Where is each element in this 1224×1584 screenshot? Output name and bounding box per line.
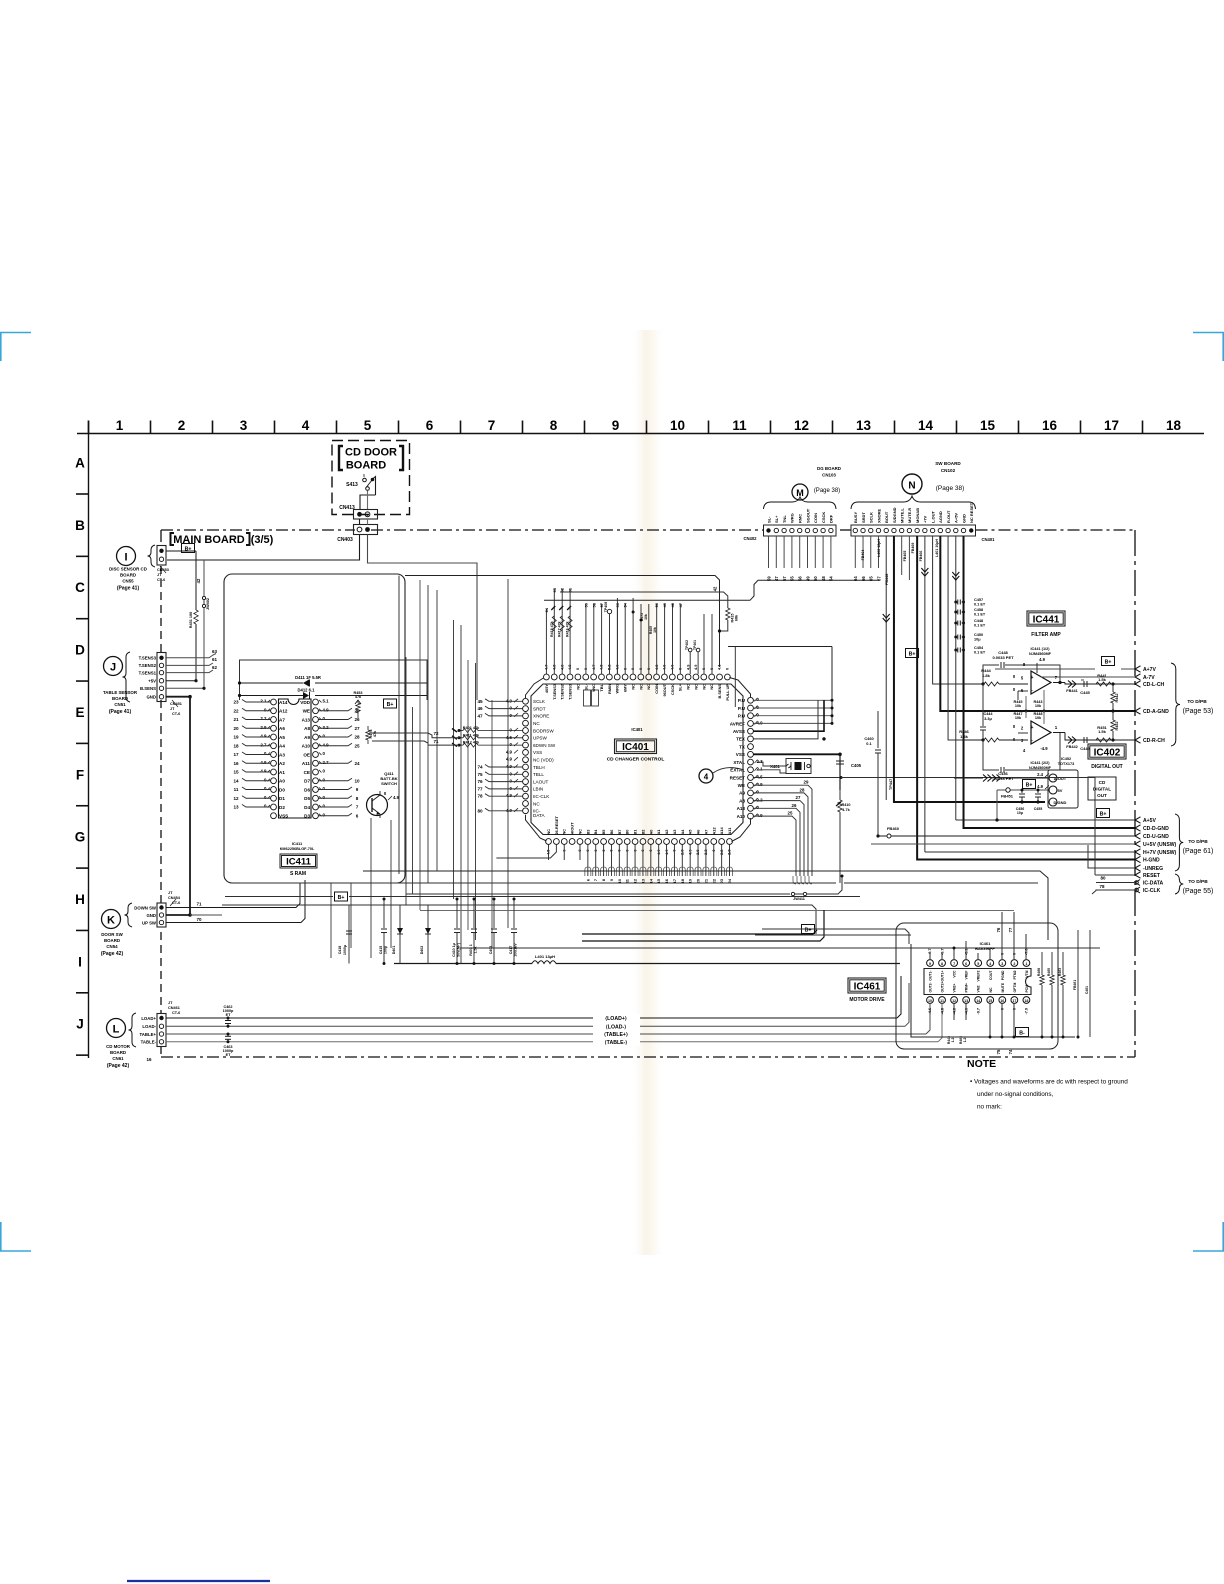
connector M pin strip	[764, 508, 837, 536]
svg-text:TOTX173: TOTX173	[1058, 762, 1074, 766]
svg-text:T.SENS1: T.SENS1	[568, 683, 573, 700]
svg-text:4.9: 4.9	[1037, 784, 1043, 789]
wire J +5V	[166, 680, 196, 682]
svg-text:RESET: RESET	[1143, 873, 1161, 879]
IC411 bottom drop wires	[331, 818, 391, 958]
svg-text:B.SENS: B.SENS	[140, 686, 156, 691]
connector N brace	[851, 496, 976, 509]
svg-text:B+: B+	[338, 895, 345, 901]
svg-text:12: 12	[233, 796, 239, 801]
svg-text:42: 42	[713, 586, 718, 591]
corner registration mark top-left	[0, 332, 31, 334]
svg-text:NC: NC	[577, 829, 582, 835]
svg-text:4.9: 4.9	[506, 793, 513, 798]
svg-text:0: 0	[1013, 1008, 1017, 1010]
svg-text:45: 45	[477, 699, 483, 704]
svg-text:MONAB: MONAB	[915, 508, 920, 523]
wire I pin1	[166, 550, 196, 552]
B+ A+5V	[1097, 809, 1110, 818]
wire UNREG	[1088, 845, 1135, 868]
svg-text:IC461: IC461	[854, 982, 881, 993]
svg-text:IC-DATA: IC-DATA	[1143, 881, 1164, 887]
svg-text:2.7: 2.7	[323, 760, 330, 765]
svg-text:6MY: 6MY	[623, 684, 628, 692]
svg-text:TP408: TP408	[604, 602, 608, 613]
svg-text:11: 11	[732, 418, 747, 433]
svg-text:LOAD-: LOAD-	[142, 1024, 156, 1029]
svg-text:FB466: FB466	[919, 551, 923, 562]
ferrite labels FB	[861, 539, 939, 562]
wire K up sw	[166, 880, 305, 923]
IC461 bottom bus	[911, 944, 1075, 1039]
svg-text:JT: JT	[168, 891, 173, 895]
svg-text:SW BOARD: SW BOARD	[935, 461, 961, 466]
svg-text:18: 18	[233, 743, 239, 748]
svg-text:B0: B0	[625, 830, 630, 835]
svg-text:B+: B+	[1026, 782, 1033, 788]
wire motor TABLE+	[166, 1004, 930, 1038]
svg-text:P.U: P.U	[738, 698, 746, 703]
svg-text:VREF: VREF	[965, 971, 969, 980]
svg-text:IC441: IC441	[1033, 615, 1060, 626]
svg-text:29: 29	[804, 780, 809, 785]
svg-text:CD-U-GND: CD-U-GND	[1143, 834, 1169, 840]
wires J sense to IC401	[166, 649, 218, 673]
transistor Q411	[367, 771, 400, 818]
svg-text:A14: A14	[279, 700, 288, 705]
svg-text:FB448: FB448	[885, 574, 889, 585]
svg-text:TP401: TP401	[693, 640, 697, 650]
svg-text:LOAD+: LOAD+	[141, 1016, 156, 1021]
svg-text:SWITCH: SWITCH	[381, 781, 397, 786]
svg-text:R468: R468	[1037, 968, 1041, 976]
svg-text:DRF: DRF	[829, 514, 834, 523]
svg-text:8: 8	[941, 962, 943, 966]
svg-text:MUTE.R: MUTE.R	[907, 508, 912, 523]
svg-text:A9: A9	[304, 735, 310, 740]
bus loop top	[405, 576, 720, 668]
svg-text:CT-6: CT-6	[172, 901, 180, 905]
svg-text:L: L	[113, 1024, 120, 1036]
svg-text:JT: JT	[168, 1001, 173, 1005]
svg-text:BODRSW: BODRSW	[533, 728, 554, 733]
svg-text:AGND: AGND	[938, 511, 943, 523]
svg-text:NC: NC	[546, 829, 551, 835]
svg-text:D.GND: D.GND	[1054, 800, 1067, 805]
svg-text:-UNREG: -UNREG	[1143, 866, 1163, 872]
svg-text:61: 61	[212, 657, 218, 662]
svg-text:11: 11	[940, 999, 944, 1003]
svg-text:-: -	[1031, 738, 1033, 744]
svg-text:96OUT: 96OUT	[662, 683, 667, 696]
svg-text:C405: C405	[851, 763, 862, 768]
svg-text:1.5k: 1.5k	[474, 947, 478, 954]
IC461 outer box	[896, 923, 1058, 1049]
svg-text:TBLH: TBLH	[533, 765, 545, 770]
svg-text:TO D/PB: TO D/PB	[1187, 699, 1207, 705]
svg-text:A8: A8	[739, 798, 745, 803]
svg-text:MUTE.L: MUTE.L	[899, 508, 904, 523]
svg-text:CN451: CN451	[170, 702, 182, 706]
wire CN403 to I connector	[167, 535, 360, 561]
digital out connector circles	[1037, 770, 1078, 808]
svg-text:DG BOARD: DG BOARD	[817, 466, 841, 471]
output A-7V	[1135, 674, 1155, 681]
wire U+5V	[871, 843, 1135, 845]
svg-text:A2: A2	[664, 829, 669, 835]
B+ IC402	[1023, 780, 1036, 789]
svg-text:1.2: 1.2	[963, 1038, 967, 1043]
svg-text:I: I	[78, 954, 82, 969]
IC461 right network	[1037, 930, 1090, 1039]
svg-text:C461: C461	[1085, 986, 1089, 994]
svg-text:CSCK: CSCK	[821, 512, 826, 523]
svg-text:UPSW: UPSW	[533, 736, 547, 741]
svg-text:GND: GND	[146, 913, 156, 918]
svg-text:(3/5): (3/5)	[251, 534, 274, 546]
svg-text:AVREF: AVREF	[730, 721, 745, 726]
svg-text:C450: C450	[974, 633, 983, 637]
connector K cable label	[168, 891, 181, 906]
capacitors C456 C455	[1016, 789, 1043, 816]
svg-text:74: 74	[1008, 1049, 1013, 1054]
svg-text:A12: A12	[279, 709, 288, 714]
svg-text:+: +	[1031, 675, 1034, 681]
svg-text:T.SENS3: T.SENS3	[139, 656, 157, 661]
switch S413	[346, 474, 375, 509]
svg-text:A3: A3	[279, 752, 285, 757]
svg-text:DIGITAL: DIGITAL	[1093, 787, 1111, 792]
svg-text:DOWN SW: DOWN SW	[134, 905, 157, 910]
svg-text:A1: A1	[656, 829, 661, 835]
svg-text:10k: 10k	[1015, 704, 1022, 708]
svg-text:BA6396FP: BA6396FP	[975, 946, 995, 951]
svg-text:7: 7	[356, 805, 359, 810]
svg-text:10k: 10k	[1035, 716, 1042, 720]
output IC-CLK	[1135, 887, 1161, 894]
wire RESET long	[754, 776, 1001, 779]
svg-text:SL-: SL-	[766, 516, 771, 523]
resistor R444	[963, 668, 1010, 686]
svg-text:I: I	[124, 552, 127, 564]
boxed mode labels	[584, 690, 591, 706]
svg-text:BOARD: BOARD	[112, 696, 128, 701]
connector N wires down	[853, 536, 1135, 860]
svg-text:9: 9	[929, 962, 931, 966]
connector J cable label	[170, 700, 182, 716]
svg-text:4.9: 4.9	[260, 760, 267, 765]
svg-text:16: 16	[1042, 418, 1058, 433]
svg-text:(Page 41): (Page 41)	[117, 586, 140, 592]
svg-text:no mark:: no mark:	[977, 1104, 1002, 1111]
svg-text:NC: NC	[686, 684, 691, 690]
output CD-R-CH	[1135, 737, 1165, 744]
svg-text:⟨TABLE+⟩: ⟨TABLE+⟩	[604, 1032, 628, 1038]
svg-text:9: 9	[356, 787, 359, 792]
resistor R441	[1096, 673, 1115, 686]
svg-text:IC411: IC411	[292, 841, 303, 846]
svg-text:4.9: 4.9	[506, 764, 513, 769]
svg-text:10k: 10k	[1035, 704, 1042, 708]
svg-text:A1: A1	[279, 770, 285, 775]
svg-text:C415: C415	[379, 946, 383, 955]
svg-text:2: 2	[1013, 962, 1015, 966]
svg-text:14: 14	[976, 999, 980, 1003]
svg-text:5V: 5V	[1058, 788, 1063, 793]
svg-text:FB460: FB460	[887, 826, 900, 831]
svg-text:72: 72	[433, 731, 439, 736]
ferrite FB460	[878, 826, 1135, 838]
wire motor LOAD+	[166, 976, 901, 1022]
svg-text:T.SENS3: T.SENS3	[552, 683, 557, 700]
svg-text:NC: NC	[638, 684, 643, 690]
svg-text:N: N	[908, 481, 915, 492]
svg-text:D1: D1	[279, 796, 285, 801]
svg-text:-4.9: -4.9	[1040, 746, 1048, 751]
svg-text:B: B	[75, 518, 85, 533]
bus bottom black L1	[582, 930, 817, 934]
svg-text:CD-D-GND: CD-D-GND	[1143, 826, 1169, 832]
resistors R401 R411 R412	[452, 726, 523, 747]
svg-text:NOTE: NOTE	[967, 1058, 996, 1070]
svg-text:IIC-CLK: IIC-CLK	[533, 794, 550, 799]
svg-text:70: 70	[196, 917, 202, 922]
svg-text:1.5k: 1.5k	[1098, 677, 1107, 682]
svg-text:7: 7	[953, 962, 955, 966]
svg-text:4: 4	[302, 418, 310, 433]
svg-text:DOOR SW: DOOR SW	[101, 932, 123, 937]
svg-text:18: 18	[1166, 418, 1182, 433]
svg-text:A+5V: A+5V	[954, 513, 959, 523]
svg-text:77: 77	[477, 786, 483, 791]
bus bottom black L2	[582, 910, 824, 941]
svg-text:74: 74	[477, 765, 483, 770]
IC401 bottom pin wires	[496, 845, 732, 884]
svg-text:2.9: 2.9	[260, 725, 267, 730]
svg-text:SRDT: SRDT	[533, 706, 546, 711]
connector J circle	[104, 657, 123, 676]
svg-text:49: 49	[805, 576, 810, 581]
svg-text:100μ: 100μ	[384, 946, 388, 954]
svg-text:15: 15	[980, 418, 996, 433]
svg-text:57: 57	[782, 576, 787, 581]
svg-text:13: 13	[964, 999, 968, 1003]
IC461 bottom wires	[947, 1004, 1014, 1055]
svg-text:NC (VDD): NC (VDD)	[533, 758, 554, 763]
bus bottom 6	[460, 947, 1100, 949]
svg-text:0: 0	[709, 668, 714, 670]
svg-text:LBIN: LBIN	[533, 787, 543, 792]
B+ near N	[906, 649, 919, 658]
capacitor C460	[864, 711, 881, 838]
svg-text:10μ: 10μ	[1017, 811, 1023, 815]
svg-text:50: 50	[813, 576, 818, 581]
svg-text:AVSS: AVSS	[733, 729, 745, 734]
svg-text:R463: R463	[1058, 968, 1062, 976]
svg-text:B+: B+	[805, 927, 812, 933]
svg-text:4.6: 4.6	[506, 735, 513, 740]
svg-text:A0: A0	[279, 779, 285, 784]
svg-text:R410: R410	[841, 803, 850, 807]
svg-text:B7: B7	[617, 830, 622, 835]
capacitor C405	[836, 761, 862, 790]
svg-text:FB464: FB464	[861, 550, 865, 561]
svg-text:5: 5	[364, 418, 372, 433]
svg-text:ET: ET	[226, 1053, 232, 1057]
svg-text:3: 3	[1001, 962, 1003, 966]
svg-text:47: 47	[477, 713, 483, 718]
svg-text:VM2+: VM2+	[953, 984, 957, 993]
svg-text:71: 71	[196, 902, 202, 907]
svg-text:VM2: VM2	[977, 985, 981, 992]
svg-text:+7V: +7V	[923, 515, 928, 523]
svg-text:TP402: TP402	[685, 640, 689, 650]
svg-text:SL+: SL+	[774, 515, 779, 523]
svg-text:4.9: 4.9	[1039, 657, 1045, 662]
svg-text:IC401: IC401	[631, 727, 643, 732]
svg-text:4.9: 4.9	[323, 742, 330, 747]
IC401 left pins	[477, 698, 555, 818]
svg-text:B3: B3	[585, 829, 590, 835]
svg-text:A14: A14	[719, 827, 724, 835]
svg-text:(Page 53): (Page 53)	[1183, 708, 1214, 715]
svg-text:77: 77	[1008, 927, 1013, 932]
svg-text:B4: B4	[593, 829, 598, 835]
connector I cable label	[157, 566, 169, 582]
svg-text:19: 19	[233, 735, 239, 740]
resistor R451 100	[189, 551, 198, 681]
svg-text:TO D/PB: TO D/PB	[1188, 879, 1208, 885]
connector M circle	[792, 484, 808, 500]
resistor R453 47k	[353, 691, 362, 718]
svg-text:28: 28	[800, 787, 805, 792]
op-amp U441a	[1010, 657, 1058, 700]
IC461 label box	[848, 978, 886, 993]
output CD-U-GND	[1135, 833, 1169, 840]
resistor R446	[959, 729, 1010, 742]
bus bottom 5	[222, 905, 816, 934]
svg-text:46: 46	[477, 706, 483, 711]
capacitor C445	[1079, 680, 1091, 695]
capacitor C462	[223, 1005, 234, 1028]
svg-text:TP447: TP447	[889, 779, 893, 790]
svg-text:B2: B2	[640, 829, 645, 835]
brace to D/PB page 61	[1175, 814, 1183, 871]
svg-text:BOARD: BOARD	[120, 573, 136, 578]
svg-text:NJM4560MF: NJM4560MF	[1029, 652, 1052, 656]
svg-text:TX: TX	[739, 744, 746, 749]
svg-text:-: -	[1031, 688, 1033, 694]
svg-text:75: 75	[996, 1049, 1001, 1054]
wire K down sw	[166, 883, 300, 908]
svg-text:2: 2	[178, 418, 186, 433]
IC411 label box	[280, 854, 317, 868]
svg-text:10: 10	[928, 999, 932, 1003]
inductor L401	[394, 954, 900, 964]
svg-text:(Page 38): (Page 38)	[814, 488, 840, 494]
svg-text:FB441: FB441	[1066, 689, 1077, 693]
svg-text:IC452: IC452	[1061, 757, 1071, 761]
svg-text:D: D	[75, 643, 85, 658]
svg-text:GND: GND	[146, 695, 156, 700]
IC411 outer routing box	[224, 574, 405, 883]
svg-text:(Page 55): (Page 55)	[1183, 888, 1214, 895]
connector J caption	[103, 690, 138, 715]
svg-text:76: 76	[996, 927, 1001, 932]
svg-text:TBLL: TBLL	[533, 772, 544, 777]
svg-text:2.2: 2.2	[260, 716, 267, 721]
svg-text:SRDT: SRDT	[861, 512, 866, 523]
svg-text:R452: R452	[1115, 721, 1119, 730]
output CD-D-GND	[1135, 825, 1169, 832]
svg-text:10k: 10k	[653, 627, 657, 633]
svg-text:A-7V: A-7V	[1143, 675, 1155, 681]
svg-text:4.7k: 4.7k	[842, 808, 850, 812]
svg-text:4.9: 4.9	[260, 734, 267, 739]
svg-text:UP SW: UP SW	[142, 920, 157, 925]
B+ IC411	[384, 699, 397, 708]
bus verticals left of IC401	[399, 576, 508, 964]
svg-text:BOARD: BOARD	[104, 938, 120, 943]
output U+5V (UNSW)	[1135, 841, 1177, 848]
connector CN403	[337, 519, 377, 543]
svg-text:10μ: 10μ	[974, 638, 981, 642]
svg-text:A6: A6	[696, 829, 701, 835]
svg-text:2.1: 2.1	[260, 699, 267, 704]
svg-text:CN461: CN461	[168, 1006, 180, 1010]
svg-text:75: 75	[477, 772, 483, 777]
svg-text:1.8k: 1.8k	[982, 673, 991, 678]
svg-text:10: 10	[670, 418, 685, 433]
wires AVSS TEX	[754, 700, 826, 741]
B+ mid	[802, 925, 815, 934]
svg-text:VTM: VTM	[1025, 970, 1029, 977]
bus pullup vertical	[728, 647, 834, 725]
svg-text:PGND: PGND	[1001, 970, 1005, 980]
svg-text:OUT2+: OUT2+	[941, 981, 945, 992]
svg-text:15: 15	[233, 770, 239, 775]
passive row C415 C410 R401 C403 C417	[379, 898, 518, 966]
svg-text:0.1 ET: 0.1 ET	[974, 603, 986, 607]
stub wires above IC401	[544, 586, 735, 707]
svg-text:A8: A8	[304, 726, 310, 731]
connector N pin strip	[851, 502, 976, 536]
svg-text:⟨TABLE-⟩: ⟨TABLE-⟩	[605, 1040, 628, 1046]
capacitor C444	[980, 684, 993, 742]
svg-text:27: 27	[354, 726, 360, 731]
svg-text:20: 20	[233, 726, 239, 731]
svg-text:16: 16	[146, 1057, 152, 1062]
svg-text:D411 1F 5.5R: D411 1F 5.5R	[295, 675, 321, 680]
svg-text:G: G	[75, 830, 86, 845]
connector J pins	[123, 652, 167, 702]
CD DOOR BOARD box	[332, 441, 410, 515]
ferrite FB452 on A.OUT	[954, 775, 1048, 782]
svg-text:L401 13μH: L401 13μH	[535, 954, 555, 959]
svg-text:65: 65	[869, 576, 874, 581]
svg-text:CD-L-CH: CD-L-CH	[1143, 682, 1165, 688]
svg-text:16: 16	[1000, 999, 1004, 1003]
svg-text:(Page 61): (Page 61)	[1183, 848, 1214, 855]
svg-text:+: +	[1031, 725, 1034, 731]
svg-text:10k: 10k	[1015, 716, 1022, 720]
svg-text:J: J	[76, 1017, 84, 1032]
svg-text:MOTOR DRIVE: MOTOR DRIVE	[849, 997, 885, 1003]
connector I circle	[117, 547, 136, 566]
svg-text:IC-CLK: IC-CLK	[1143, 888, 1161, 894]
brace to D/PB page 53	[1171, 663, 1180, 746]
svg-text:COIN: COIN	[813, 513, 818, 523]
